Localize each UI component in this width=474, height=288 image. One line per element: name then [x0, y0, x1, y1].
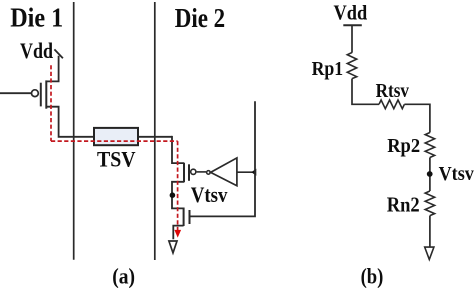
wire: inverter input from right vertical rail [237, 171, 255, 173]
svg-text:Rn2: Rn2 [387, 192, 420, 216]
svg-text:Die 2: Die 2 [175, 3, 226, 33]
wire: Rp1 down, corner to Rtsv [352, 79, 379, 105]
wire: Rp2 to Vtsv node [429, 158, 431, 192]
resistor Rn2 [425, 191, 434, 216]
svg-text:Rtsv: Rtsv [376, 81, 410, 102]
red leakage path: vertical down to ground [177, 141, 179, 230]
svg-text:(a): (a) [112, 263, 135, 288]
Vdd rail bar (panel b) [343, 24, 362, 26]
label Rtsv [376, 81, 410, 102]
ground symbol (die 2) [169, 241, 177, 253]
red leakage path arrowhead [174, 230, 181, 238]
junction dot at inverter input rail [251, 169, 256, 176]
resistor Rp1 [347, 53, 356, 79]
label Vtsv (panel b) [439, 163, 474, 185]
node dot Vtsv (panel b) [427, 171, 433, 177]
wire: inverter output to Q2 gate [197, 171, 207, 173]
wire: Vdd bar to Rp1 [351, 25, 353, 53]
resistor Rtsv (horizontal) [379, 100, 404, 109]
inverter U1 [207, 158, 237, 186]
red leakage path: vertical through Q1 [50, 65, 52, 141]
power label Vdd (die 1) [20, 38, 53, 63]
wire: Rtsv to corner, down to Rp2 [404, 104, 430, 132]
transistor Q3 (NMOS, die 2) [184, 208, 190, 227]
label (a) [112, 263, 135, 288]
transistor Q2 (PMOS, die 2) [184, 163, 196, 183]
die boundary line 1 [73, 2, 75, 260]
ground arrow (panel b) [425, 247, 434, 259]
wire: Q2 drain to Q3 source [172, 182, 184, 209]
svg-text:Rp2: Rp2 [387, 135, 420, 157]
wire: die2 vertical from TSV to Q2 source [172, 136, 184, 163]
label Die 1 [10, 3, 63, 33]
label Die 2 [175, 3, 226, 33]
label Vtsv (die 2) [191, 182, 228, 207]
wire: right rail down to Q3 gate [191, 101, 256, 216]
wire: Rn2 down to output arrow [429, 216, 431, 248]
power label Vdd (panel b) [334, 1, 368, 25]
svg-text:(b): (b) [361, 263, 384, 288]
TSV block [94, 128, 138, 145]
wire: Q1 drain down and across to TSV / die 2 [46, 107, 172, 137]
junction node dot (Vtsv node) [170, 192, 176, 198]
die boundary line 2 [154, 2, 156, 260]
transistor Q1 (PMOS, die 1) [32, 80, 47, 108]
red leakage path: horizontal across TSV [51, 140, 178, 142]
resistor Rp2 [425, 133, 434, 158]
label TSV [97, 147, 136, 172]
label Rn2 [387, 192, 420, 216]
label Rp2 [387, 135, 420, 157]
svg-text:Vdd: Vdd [334, 1, 368, 25]
svg-text:Die 1: Die 1 [10, 3, 63, 33]
label (b) [361, 263, 384, 288]
svg-text:TSV: TSV [97, 147, 136, 172]
wire: Q3 drain down to ground [173, 226, 183, 240]
svg-text:Vdd: Vdd [20, 38, 53, 63]
label Rp1 [312, 58, 344, 80]
svg-text:Vtsv: Vtsv [439, 163, 474, 185]
wire: Q1 source up to Vdd [46, 56, 58, 82]
Vdd supply diagonal tick [54, 49, 63, 58]
svg-text:Rp1: Rp1 [312, 58, 344, 80]
wire: Q1 gate input from left edge [0, 92, 31, 94]
svg-text:Vtsv: Vtsv [191, 182, 228, 207]
